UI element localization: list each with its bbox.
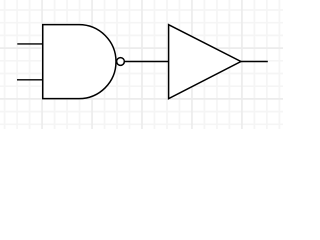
wire input B	[17, 79, 43, 81]
grid major lines	[0, 0, 283, 129]
wire input A	[17, 43, 42, 45]
nand gate U1 inversion bubble	[117, 58, 125, 66]
wire buffer output	[241, 61, 268, 63]
buffer U2 triangle	[169, 25, 241, 99]
nand gate U1 body	[43, 25, 116, 99]
grid minor lines	[0, 0, 283, 129]
wire nand output to buffer input	[125, 61, 169, 63]
